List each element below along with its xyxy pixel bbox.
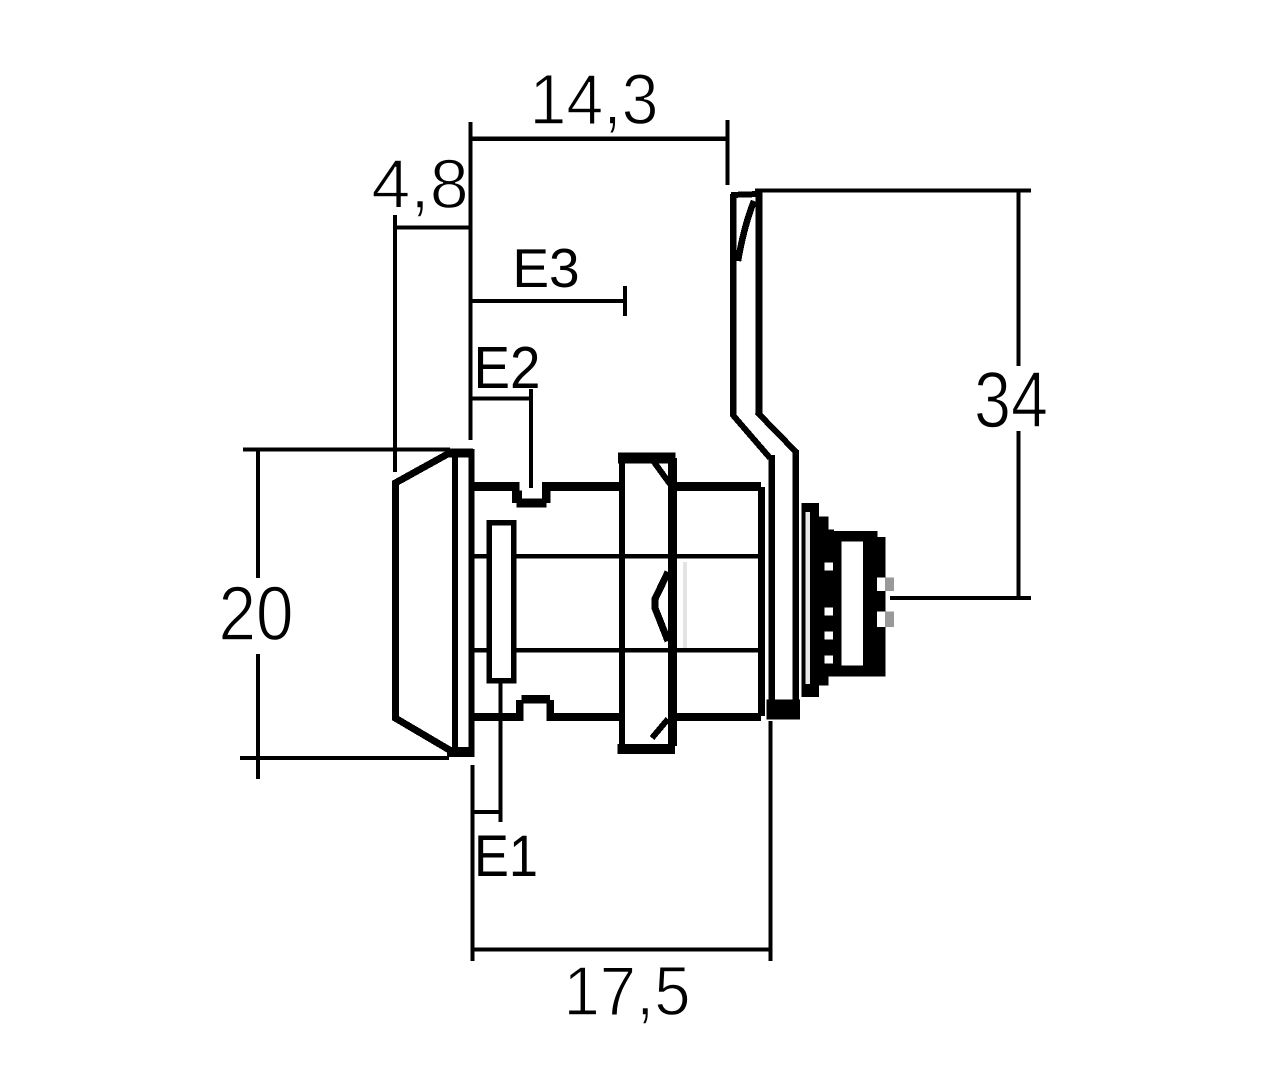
svg-text:4,8: 4,8 [371, 145, 468, 223]
cam lever upper right edge [756, 189, 763, 414]
dim 17,5 right extension [769, 721, 773, 961]
cam lever lower right edge [792, 450, 799, 705]
extension line left (shared x=470) [469, 122, 473, 440]
body bottom edge right of notch [554, 713, 621, 721]
cam lever top cap [731, 194, 759, 195]
spline teeth column [828, 530, 834, 677]
body core line upper [474, 554, 758, 559]
nut top-right chamfer [654, 462, 670, 484]
svg-text:E1: E1 [474, 824, 538, 889]
body core line lower [474, 648, 758, 653]
extension line x=394 [393, 215, 397, 472]
nut bottom-right chamfer [652, 719, 668, 738]
rear tab 2 white [877, 612, 885, 628]
body bottom notch hat slab [522, 695, 551, 704]
cam lever upper left edge [730, 194, 737, 416]
barrel thread shading [683, 562, 687, 648]
cam lever foot [767, 700, 801, 720]
lock head top slope [394, 453, 450, 484]
spline band [802, 503, 820, 697]
dim 34 top extension line [755, 189, 1031, 193]
teeth notch 3 [825, 632, 834, 640]
dim 20 vertical line lower [256, 654, 260, 779]
spline band highlight [806, 512, 811, 684]
dim E3 line [470, 299, 625, 303]
body top edge left of notch [474, 482, 519, 491]
rear end column [877, 537, 886, 677]
body top notch left wall [512, 491, 522, 504]
svg-text:34: 34 [974, 355, 1048, 444]
nut mid wedge [655, 572, 668, 641]
rear knob inner [842, 542, 864, 666]
lock head bottom slope [394, 717, 450, 750]
leader E2 down into notch [529, 389, 533, 488]
svg-text:20: 20 [219, 571, 294, 657]
teeth notch 4 [825, 656, 834, 664]
lock head flange bottom cap [447, 747, 473, 757]
dim 4,8 line [394, 226, 470, 230]
lock head front face [392, 481, 399, 719]
nut bottom cap [618, 744, 676, 754]
nut top cap [618, 453, 676, 464]
tick E3 x=625 [623, 286, 627, 316]
dim 34 bottom extension line [890, 596, 1031, 600]
E1 tick line [472, 810, 500, 814]
dim 17,5 line [472, 948, 769, 952]
teeth notch 2 [825, 608, 834, 616]
lock head right face [469, 449, 475, 757]
dim 20 top extension line [243, 448, 450, 452]
rear tab 1 white [877, 578, 885, 592]
teeth notch 1 [825, 563, 834, 571]
dim 20 bottom extension line [240, 756, 449, 760]
nut left edge [619, 454, 625, 750]
spline step band [819, 517, 829, 686]
dim E2 line [470, 397, 531, 401]
body bottom notch right leg [546, 703, 554, 721]
svg-text:E3: E3 [512, 237, 579, 299]
rear tab 1 gray [885, 578, 894, 592]
dim 17,5 left extension [471, 765, 475, 961]
lock head flange seam [452, 455, 458, 749]
rear knob outer [833, 531, 878, 677]
body top notch floor [521, 499, 543, 503]
cam lever crease arc [738, 201, 754, 261]
nut right edge [668, 458, 677, 746]
body bottom notch left leg [516, 700, 524, 721]
svg-text:14,3: 14,3 [530, 61, 659, 140]
svg-text:17,5: 17,5 [564, 952, 691, 1030]
rear barrel right edge [758, 487, 765, 716]
lock head flange top cap [447, 449, 473, 458]
cam lever bend right [757, 412, 796, 452]
body top notch right wall [542, 491, 551, 504]
rear tab 2 gray [885, 612, 894, 628]
body top edge right of notch [542, 482, 621, 491]
cam lever bend left [732, 414, 770, 458]
dim 20 vertical line upper [256, 450, 260, 579]
body bottom edge right of nut [677, 713, 761, 721]
cam lever lower left edge [769, 455, 775, 712]
dim 34 vertical line upper [1017, 190, 1021, 366]
dim 34 vertical line lower [1017, 431, 1021, 598]
E1 leader [499, 680, 503, 822]
retaining pin rectangle [489, 523, 514, 681]
extension tick right x=727 [726, 120, 730, 185]
body bottom edge left of notch [474, 713, 516, 721]
body top edge right of nut [677, 482, 761, 491]
dim 14,3 line [470, 136, 727, 141]
